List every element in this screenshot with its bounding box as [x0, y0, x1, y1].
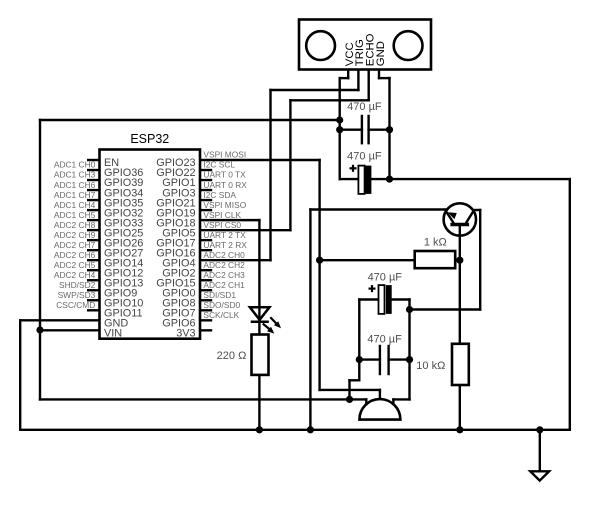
svg-text:ADC1 CH4: ADC1 CH4	[54, 200, 96, 210]
svg-text:470 µF: 470 µF	[367, 334, 402, 346]
svg-text:I2C SDA: I2C SDA	[203, 190, 236, 200]
svg-text:ADC2 CH2: ADC2 CH2	[203, 260, 245, 270]
svg-text:CSC/CMD: CSC/CMD	[56, 300, 95, 310]
svg-text:ADC2 CH5: ADC2 CH5	[54, 260, 96, 270]
svg-text:470 µF: 470 µF	[347, 151, 382, 163]
svg-text:VIN: VIN	[104, 328, 122, 340]
svg-text:I2C SCL: I2C SCL	[203, 160, 235, 170]
svg-text:220 Ω: 220 Ω	[217, 350, 247, 362]
svg-text:VSPI CS0: VSPI CS0	[203, 220, 241, 230]
svg-text:ADC2 CH0: ADC2 CH0	[203, 250, 245, 260]
svg-text:470 µF: 470 µF	[368, 271, 403, 283]
svg-text:10 kΩ: 10 kΩ	[416, 360, 445, 372]
svg-text:UART 0 RX: UART 0 RX	[203, 180, 247, 190]
svg-text:VSPI MISO: VSPI MISO	[203, 200, 246, 210]
svg-text:UART 2 TX: UART 2 TX	[203, 230, 246, 240]
svg-text:3V3: 3V3	[176, 328, 195, 340]
svg-text:ADC1 CH7: ADC1 CH7	[54, 190, 96, 200]
svg-text:ADC1 CH0: ADC1 CH0	[54, 160, 96, 170]
svg-text:SHD/SD2: SHD/SD2	[59, 280, 96, 290]
svg-text:ADC1 CH3: ADC1 CH3	[54, 170, 96, 180]
svg-text:ADC2 CH1: ADC2 CH1	[203, 280, 245, 290]
svg-text:ADC2 CH6: ADC2 CH6	[54, 250, 96, 260]
svg-text:ADC2 CH4: ADC2 CH4	[54, 270, 96, 280]
svg-text:ADC2 CH8: ADC2 CH8	[54, 220, 96, 230]
svg-text:SWP/SD3: SWP/SD3	[58, 290, 96, 300]
svg-text:1 kΩ: 1 kΩ	[424, 237, 447, 249]
svg-text:SDI/SD1: SDI/SD1	[203, 290, 236, 300]
svg-text:UART 2 RX: UART 2 RX	[203, 240, 247, 250]
svg-text:GND: GND	[375, 41, 387, 66]
svg-text:ADC1 CH6: ADC1 CH6	[54, 180, 96, 190]
svg-text:470 µF: 470 µF	[347, 101, 382, 113]
svg-text:ADC2 CH9: ADC2 CH9	[54, 230, 96, 240]
svg-text:SDO/SD0: SDO/SD0	[203, 300, 240, 310]
svg-text:ESP32: ESP32	[130, 132, 169, 146]
svg-text:UART 0 TX: UART 0 TX	[203, 170, 246, 180]
svg-text:ADC2 CH7: ADC2 CH7	[54, 240, 96, 250]
svg-text:VSPI CLK: VSPI CLK	[203, 210, 241, 220]
svg-text:ADC1 CH5: ADC1 CH5	[54, 210, 96, 220]
svg-text:SCK/CLK: SCK/CLK	[203, 310, 239, 320]
svg-text:VSPI MOSI: VSPI MOSI	[203, 150, 246, 160]
svg-text:ADC2 CH3: ADC2 CH3	[203, 270, 245, 280]
